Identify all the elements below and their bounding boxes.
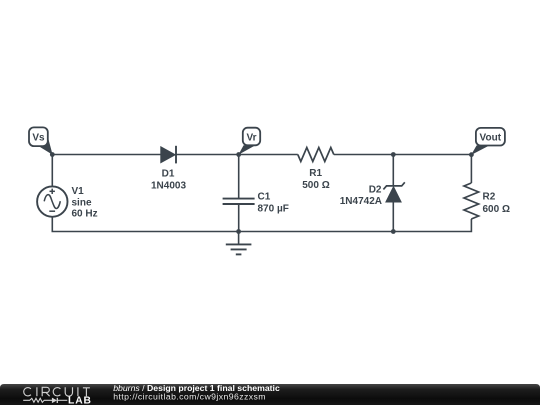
svg-text:V1: V1 [72, 186, 85, 197]
svg-text:60 Hz: 60 Hz [72, 209, 98, 220]
svg-text:D2: D2 [369, 185, 382, 196]
svg-text:1N4003: 1N4003 [151, 181, 186, 192]
svg-text:Vs: Vs [32, 133, 45, 144]
wire: bottom rail with corner risers [52, 217, 471, 232]
logo resistor-diode glyph [23, 398, 67, 403]
svg-text:500 Ω: 500 Ω [302, 180, 329, 191]
svg-text:870 µF: 870 µF [258, 204, 289, 215]
node Vs flag [29, 127, 53, 154]
zener diode D2 [383, 182, 404, 202]
node Vs dot [50, 152, 55, 157]
node Vout flag [471, 128, 505, 155]
node Vr dot [236, 152, 241, 157]
svg-text:R1: R1 [309, 168, 322, 179]
wire: Vout node down to R2 top [470, 155, 472, 184]
svg-text:Vout: Vout [480, 133, 502, 144]
junction dot D2 top [391, 152, 396, 157]
svg-text:D1: D1 [162, 168, 175, 179]
svg-text:sine: sine [72, 197, 92, 208]
junction dot C1/ground on bottom rail [236, 229, 241, 234]
svg-text:1N4742A: 1N4742A [340, 196, 382, 207]
voltage source V1 [37, 186, 67, 216]
svg-text:C1: C1 [258, 192, 271, 203]
wire: D2 bottom lead [392, 202, 394, 232]
wire: Vs node down to V1 top [51, 155, 53, 188]
svg-text:Vr: Vr [246, 133, 256, 144]
wire: top rail D1 cathode to R1 left [176, 154, 298, 156]
svg-text:LAB: LAB [68, 395, 92, 405]
node Vr flag [238, 128, 260, 155]
wire: top rail R1 right to Vout node [334, 154, 472, 156]
node Vout dot [469, 152, 474, 157]
svg-text:http://circuitlab.com/cw9jxn96: http://circuitlab.com/cw9jxn96zzxsm [113, 392, 266, 402]
logo diode triangle [52, 398, 57, 404]
wire: top rail left segment (Vs node to D1 anode) [52, 154, 161, 156]
diode D1 [161, 146, 176, 164]
resistor R1 [298, 148, 334, 162]
footer bar [0, 384, 540, 405]
junction dot D2 bottom [391, 229, 396, 234]
capacitor C1 [223, 199, 255, 204]
wire: D2 top lead [392, 155, 394, 187]
ground [226, 232, 252, 255]
wire: C1 bottom plate to bottom rail [238, 204, 240, 232]
resistor R2 [464, 183, 479, 219]
logo CIRCUIT lettering [24, 387, 90, 396]
svg-text:R2: R2 [483, 192, 496, 203]
svg-text:600 Ω: 600 Ω [483, 204, 510, 215]
wire: Vr node down to C1 top plate [238, 155, 240, 199]
